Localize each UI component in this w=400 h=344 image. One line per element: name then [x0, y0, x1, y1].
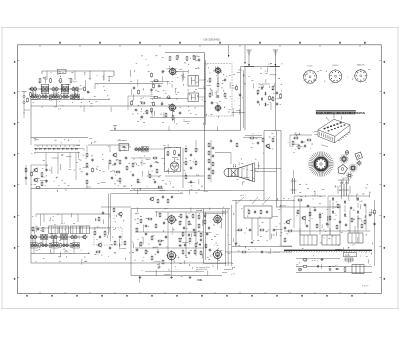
wire bl feed [31, 227, 110, 229]
resistor R78 [145, 249, 147, 254]
capacitor C53 [184, 243, 186, 247]
resistor R70b [192, 213, 194, 218]
wire rb rail2 [225, 251, 292, 253]
wire stage drops [47, 71, 104, 80]
if transformer stage FT4 [61, 86, 68, 91]
capacitor C22a [276, 91, 278, 95]
resistor R76 [157, 240, 162, 242]
bl trimmer stage FT17 [41, 243, 48, 247]
wire mid bottom [150, 117, 205, 119]
trimmer stage FT7 [41, 94, 48, 98]
resistor R23 [131, 100, 133, 105]
bl left parts [32, 226, 44, 232]
dashed callout lines [236, 197, 270, 204]
capacitor C57 [272, 229, 276, 231]
wire y190 right [232, 190, 264, 192]
resistor R37 [86, 162, 88, 167]
resistor R110 [157, 198, 159, 203]
capacitor C61 [369, 213, 371, 217]
output tube V4 [166, 214, 177, 225]
tube socket S3 [354, 69, 368, 83]
wire bottom rail [31, 188, 130, 190]
mains label box [344, 253, 357, 257]
resistor R82 [188, 220, 190, 225]
capacitor C55 [208, 249, 212, 251]
value labels bottom-left strip [32, 213, 127, 264]
resistor R81 [179, 220, 181, 225]
ladder taps [38, 145, 74, 147]
resistor R56 [195, 160, 197, 165]
capacitor C45 [144, 225, 148, 227]
resistor R28 [224, 92, 226, 97]
capacitor C16 [133, 86, 135, 90]
if transformer stage FT2 [41, 86, 48, 91]
wire ps links [328, 196, 370, 228]
wire bl left vert [30, 189, 32, 264]
capacitor C63 [339, 220, 341, 224]
resistor R70i [200, 250, 202, 255]
ground G5 [251, 241, 254, 244]
wire bc drop [172, 259, 218, 276]
resistor R29c [280, 93, 282, 98]
resistor R12 [176, 55, 178, 60]
af transformer stage FT12 [40, 234, 47, 239]
resistor R65 [94, 230, 96, 235]
value labels mid cluster [130, 54, 206, 124]
capacitor C44d [206, 232, 208, 236]
wire box feed [217, 74, 219, 94]
antenna tap symbol [113, 126, 117, 131]
capacitor C66 [320, 258, 324, 260]
wire ladder rail upper [34, 144, 80, 146]
ground G0c [199, 243, 202, 246]
bl trimmer stage FT18 [51, 243, 58, 248]
capacitor C44 [163, 221, 165, 225]
bus x108 [109, 194, 111, 242]
bl trimmer stage FT20 [72, 243, 79, 248]
resistor R39 [92, 167, 94, 172]
wire emitter bus [31, 99, 110, 101]
resistor R45 [167, 151, 169, 156]
wire mid link [150, 97, 188, 99]
resistor R107 [316, 223, 318, 228]
resistor R68 [114, 240, 116, 245]
exploded part P2 [349, 164, 358, 173]
value labels center cluster [132, 144, 208, 195]
resistor R46 [174, 150, 176, 155]
wire bc inner verticals [168, 212, 196, 258]
input terminal [29, 88, 32, 97]
resistor R69 [124, 240, 126, 245]
capacitor C70 [306, 224, 308, 228]
ground G3 [189, 276, 192, 279]
svg-text:GB 505/5401: GB 505/5401 [204, 37, 221, 41]
value labels mid-left strip [31, 138, 131, 192]
wire above horn [243, 136, 262, 138]
capacitor C69 [316, 265, 320, 267]
resistor R14b [151, 107, 153, 112]
wire right link [232, 87, 237, 89]
line taps [169, 126, 219, 131]
capacitor C52 [208, 226, 210, 230]
tube socket S2 [329, 69, 343, 83]
resistor R88 [205, 243, 207, 248]
wire ps to chassis [300, 226, 355, 235]
wire bc rail2 [155, 211, 228, 213]
resistor R70g [182, 249, 184, 254]
if transformer stage FT3 [51, 86, 58, 90]
resistor R54 [195, 147, 197, 152]
resistor R87 [195, 242, 197, 247]
capacitor C22b [276, 102, 278, 106]
resistor R55 [185, 160, 187, 165]
ground G4 [235, 242, 238, 245]
resistor R44 [126, 165, 128, 170]
bus wire left vertical [240, 67, 242, 131]
wire stage vertical links [32, 91, 77, 96]
tube socket S1 label [308, 66, 314, 68]
wire gear-transformer link [343, 178, 349, 184]
value label box [58, 69, 67, 73]
socket box B1 [300, 235, 317, 245]
wire eye feed [131, 149, 165, 158]
capacitor C44a [186, 215, 188, 219]
resistor R42 [115, 171, 120, 173]
dashed enclosure converter [205, 64, 233, 117]
exploded part P6 [356, 160, 362, 166]
value labels bottom mid-right [234, 198, 292, 254]
bus wire right vertical [274, 67, 276, 131]
resistor R61 [293, 137, 298, 139]
resistor R33a [25, 167, 27, 172]
ground G0a [159, 243, 162, 246]
capacitor C56 [248, 229, 252, 231]
wire long crossing [264, 130, 281, 132]
resistor R33 [41, 172, 43, 177]
wire bl long [31, 262, 232, 264]
transistor T9 [33, 167, 38, 172]
wire right cluster [290, 135, 312, 147]
resistor R27 [209, 92, 211, 97]
resistor R66 [104, 230, 106, 235]
antenna symbol A2 [273, 50, 278, 67]
wire bl row1 rail [31, 236, 88, 238]
wire ladder top bus [31, 137, 88, 139]
resistor R105 [302, 265, 307, 267]
capacitor C38 [256, 142, 260, 144]
capacitor C36 [190, 166, 192, 170]
speaker terminals [233, 164, 236, 167]
border grid numbers [14, 60, 385, 279]
resistor R16 [153, 96, 158, 98]
resistor R53 [185, 147, 187, 152]
capacitor C38a [230, 139, 232, 143]
tube V1 [168, 67, 177, 76]
bus vertical x264 [263, 131, 265, 201]
rectifier box [119, 144, 131, 151]
wire ladder feed [30, 138, 32, 146]
capacitor C42 [109, 246, 111, 250]
capacitor C40 [304, 144, 306, 148]
bus wire vertical right [205, 53, 206, 131]
wire bc mid [135, 232, 204, 248]
wire horn feed [215, 153, 231, 165]
resistor R90 [259, 229, 264, 231]
resistor R31 [269, 95, 271, 100]
resistor R83 [198, 223, 200, 228]
resistor R77 [140, 241, 142, 246]
resistor R15 [153, 83, 155, 88]
bl stage verticals [32, 239, 67, 245]
transistor T22 [118, 211, 123, 216]
resistor R36 [86, 152, 88, 157]
resistor R70e [194, 231, 196, 236]
capacitor C22 [239, 93, 241, 97]
tube socket S3 label [357, 64, 366, 67]
detector stage FT22 [141, 147, 148, 152]
capacitor C29 [111, 176, 113, 180]
capacitor C26 [86, 172, 88, 176]
wire tr feed [338, 180, 350, 183]
resistor R104 [98, 216, 100, 221]
wire ps low rail [296, 258, 340, 260]
value labels bottom-center [129, 207, 235, 283]
wire antenna bus [241, 66, 279, 68]
resistor R72 [147, 218, 152, 220]
capacitor C54 [200, 238, 202, 242]
resistor R35 [35, 187, 40, 189]
detector stage FT21 [134, 147, 141, 151]
wire plate link [176, 72, 188, 79]
resistor R70d [182, 231, 184, 236]
af transformer stage FT13 [50, 234, 57, 238]
output tube V5 [166, 250, 177, 261]
capacitor C11 [161, 70, 165, 72]
resistor R70c [198, 214, 200, 219]
resistor R111 [167, 198, 169, 203]
wire long y207 [276, 206, 341, 208]
resistor R22 [140, 102, 145, 104]
transistor T8 [214, 104, 222, 112]
wire hv rail [165, 52, 204, 54]
wire top bracket [42, 71, 114, 76]
wire chain link [262, 84, 270, 86]
resistor R96 [351, 217, 353, 222]
output tube V6 [212, 214, 222, 224]
wire long y200 [232, 200, 295, 202]
wire ps verticals [300, 200, 366, 235]
small transistor T6 [166, 96, 171, 99]
wire ladder bus2 [88, 144, 130, 146]
wire bl bracket drop [40, 214, 42, 226]
wire border drop 1 [228, 45, 230, 58]
wire feed right [245, 135, 262, 137]
diode chain D1-D4 [261, 86, 267, 107]
ground G0b [179, 244, 182, 247]
resistor R57 [185, 174, 187, 179]
choke CH1 [291, 170, 297, 194]
wire bl right link [95, 228, 110, 232]
resistor R85 [179, 237, 181, 242]
bias resistors R1-R4 [39, 94, 72, 99]
tube V2 [168, 103, 177, 112]
bl trimmer stage FT19 [62, 243, 69, 247]
wire transistor grounds [34, 91, 76, 100]
wire rb link [281, 245, 292, 247]
resistor R57a [208, 142, 210, 147]
capacitor C67 [329, 268, 331, 272]
transistor T19 [97, 242, 102, 247]
resistor R57f [208, 174, 210, 179]
resistor R57e [212, 169, 214, 174]
wire bl drops [44, 214, 78, 222]
transistor T10 [33, 177, 38, 182]
svg-text:220V~: 220V~ [345, 255, 352, 257]
terminal bar 1 [244, 66, 254, 68]
svg-text:EABC80: EABC80 [357, 64, 366, 67]
bus vertical x276 [275, 131, 277, 208]
resistor R73 [140, 218, 142, 223]
resistor R38 [86, 179, 88, 184]
svg-text:EM 34: EM 34 [333, 65, 340, 67]
bl label [61, 223, 65, 225]
border grid ticks and letters [26, 42, 366, 297]
bl resistors [39, 243, 72, 248]
capacitor C39 [300, 141, 304, 143]
resistor R25 [209, 77, 211, 82]
if transformer stage FT5 [71, 86, 78, 90]
wire horizontal y130 left [110, 129, 241, 131]
resistor R29a [272, 85, 274, 90]
resistor R70a [180, 213, 182, 218]
fuse F1 [345, 258, 353, 261]
trimmer stage FT10 [72, 94, 79, 99]
wire rb rail [232, 246, 292, 248]
resistor R75 [151, 235, 153, 240]
capacitor C65 [314, 208, 316, 212]
capacitor C20 [217, 95, 219, 99]
resistor R21 [138, 89, 140, 94]
wire grid line [150, 80, 170, 82]
bl trimmer stage FT16 [30, 243, 37, 248]
filter block FB1 [352, 265, 364, 274]
svg-text:...........: ........... [175, 269, 181, 271]
exploded part P4 [355, 152, 363, 160]
resistor R103 [113, 207, 115, 212]
value labels top-left strip [33, 72, 114, 112]
bus vertical x281 [280, 131, 282, 247]
resistor R70 [159, 212, 161, 217]
resistor R95 [329, 215, 331, 220]
ground G1 [139, 276, 142, 279]
resistor R52 [137, 178, 139, 183]
antenna symbol A1 [247, 50, 252, 67]
svg-text:Z.F.: Z.F. [58, 108, 62, 110]
wire ps bottom [296, 265, 372, 267]
resistor R20 [193, 55, 195, 60]
diode ladder D5-D14 [34, 148, 79, 150]
part number label [362, 285, 369, 287]
exploded part P7 [345, 151, 349, 155]
resistor R67 [95, 251, 100, 253]
capacitor C25 [45, 179, 47, 183]
transistor T23 [149, 196, 154, 201]
capacitor C37b [212, 154, 214, 158]
magic eye tube V3 [170, 158, 178, 170]
capacitor C60 [364, 203, 366, 207]
resistor R74 [136, 227, 138, 232]
wire ps left [294, 196, 326, 228]
wire bc bottom [131, 275, 222, 277]
resistor R29 [236, 85, 238, 90]
resistor R102 [344, 267, 346, 272]
wire bc verticals [203, 209, 205, 264]
capacitor C37a [212, 146, 214, 150]
resistor R97 [297, 199, 302, 201]
if transformer stage FT1 [30, 86, 37, 90]
capacitor C43 [118, 236, 122, 238]
resistor R108 [336, 224, 338, 229]
aerial jack J1 [22, 92, 27, 111]
capacitor C50 [183, 226, 185, 230]
if transformer IFT1 [188, 76, 199, 86]
resistor R60 [272, 137, 274, 142]
resistor R70f [200, 232, 202, 237]
resistor R62 [292, 140, 294, 145]
resistor R58 [249, 137, 254, 139]
wire riser [110, 145, 120, 152]
callout text [240, 195, 246, 197]
af transformer stage FT14 [60, 234, 67, 239]
wire bc y271 [145, 270, 204, 272]
resistor R57b [208, 150, 210, 155]
capacitor C24a [25, 176, 27, 180]
capacitor C30 [124, 157, 128, 159]
tube socket S1 [303, 70, 317, 84]
capacitor C13 [161, 102, 163, 106]
resistor R11 [169, 56, 171, 61]
wire bl bracket [36, 214, 110, 218]
capacitor C62 [350, 206, 352, 210]
capacitor C44c [188, 233, 190, 237]
jack parts [24, 97, 31, 118]
fine print row [175, 269, 181, 271]
capacitor C46 [145, 232, 147, 236]
socket box B3 [348, 233, 363, 243]
wire ps bottom2 [296, 272, 372, 274]
resistor R79 [151, 255, 153, 260]
tube V1 pin ticks [169, 68, 176, 75]
tube socket S2 label [333, 65, 340, 67]
resistor R13 [186, 56, 188, 61]
resistor R101 [302, 259, 307, 261]
capacitor C15 [198, 58, 200, 62]
legend text strip [316, 110, 365, 115]
resistor R70h [194, 249, 196, 254]
note text block [196, 266, 210, 271]
wire to mid cluster [95, 84, 163, 90]
resistor R58a [236, 142, 238, 147]
wire bl drops2 [34, 239, 74, 254]
capacitor C59 [284, 226, 286, 230]
resistor R26 [217, 82, 219, 87]
wire ladder drops [46, 153, 76, 181]
bus wire center vertical [243, 67, 245, 131]
trimmer stage FT9 [62, 94, 69, 98]
magic eye enclosure [165, 148, 181, 172]
resistor R32 [31, 171, 33, 176]
capacitor C24 [45, 168, 47, 172]
